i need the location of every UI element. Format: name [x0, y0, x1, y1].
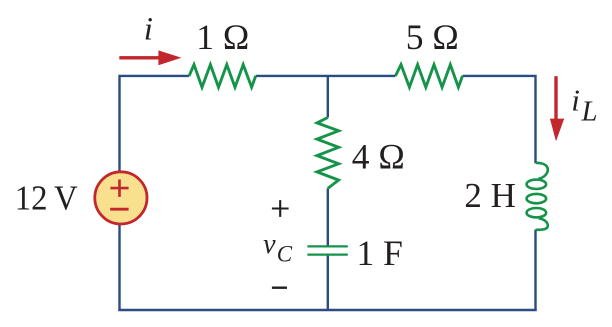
label vC voltage [263, 229, 293, 267]
resistor 1-ohm (top left) [189, 65, 256, 88]
svg-text:i: i [571, 82, 580, 117]
current arrow i (top left) [119, 50, 181, 65]
wire: bottom rail [118, 309, 536, 311]
svg-text:12 V: 12 V [15, 179, 78, 218]
inductor 2 H top hook [536, 163, 548, 179]
svg-text:1 Ω: 1 Ω [196, 17, 249, 57]
capacitor voltage minus sign [272, 287, 287, 289]
svg-text:1 F: 1 F [357, 233, 403, 273]
wire: top-left corner segment [120, 76, 190, 171]
wire: middle branch upper stub [327, 76, 329, 118]
inductor 2 H loop 1 [527, 180, 547, 189]
wire: top-right corner segment [463, 76, 536, 163]
capacitor 1 F top plate [307, 245, 347, 247]
capacitor 1 F bottom plate [307, 253, 347, 255]
svg-text:v: v [263, 229, 276, 260]
inductor 2 H loop 3 [527, 208, 547, 217]
voltage source 12 V circle [95, 172, 147, 224]
capacitor voltage plus sign [272, 200, 289, 217]
svg-text:i: i [144, 12, 153, 48]
resistor 5-ohm (top right) [396, 65, 463, 88]
wire: top middle segment between 1-ohm and 5-ohm [256, 75, 396, 77]
voltage source minus sign [110, 208, 128, 211]
svg-text:L: L [581, 96, 598, 127]
svg-text:4 Ω: 4 Ω [352, 137, 405, 177]
svg-text:5 Ω: 5 Ω [406, 17, 459, 57]
resistor 4-ohm (middle branch, vertical) [317, 118, 339, 189]
current arrow iL (right branch) [550, 76, 564, 141]
wire: middle branch between 4-ohm and capacitor [327, 188, 329, 245]
svg-text:2 H: 2 H [464, 176, 516, 215]
label iL current [571, 82, 597, 127]
wire: left branch lower stub [118, 225, 120, 310]
svg-text:C: C [277, 242, 293, 267]
voltage source plus sign [110, 179, 128, 197]
inductor 2 H loop 2 [527, 194, 547, 203]
wire: right branch lower stub [534, 230, 536, 310]
inductor 2 H bottom hook [536, 218, 548, 230]
wire: middle branch lower stub [327, 256, 329, 311]
